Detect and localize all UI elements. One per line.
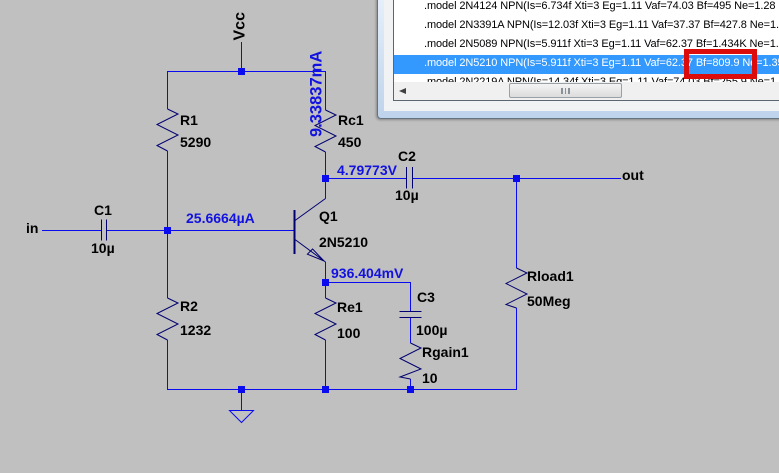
transistor Q1 (295, 199, 326, 263)
wire collector node to C2 (325, 178, 407, 180)
svg-text:Vcc: Vcc (232, 12, 249, 41)
capacitor C3 (400, 312, 422, 318)
label Rload1 (527, 269, 574, 283)
junction base node (164, 227, 171, 234)
value label 5290 (R1) (180, 135, 211, 149)
value label 450 (Rc1) (338, 135, 361, 149)
junction emitter node (322, 279, 329, 286)
svg-text:9.33837mA: 9.33837mA (308, 51, 326, 137)
label Rc1 (338, 113, 364, 127)
label R1 (180, 113, 198, 127)
wire bottom rail (167, 389, 517, 391)
wire ground stub (241, 392, 243, 411)
junction out node (513, 175, 520, 182)
wire Rc1 bottom lead to collector node (325, 152, 327, 179)
wire base node to Q1 base (167, 230, 294, 232)
wire Q1 emitter pin to node (325, 262, 327, 283)
resistor Rload1 (506, 268, 527, 308)
wire out node to out port (516, 178, 621, 180)
dialog window (model list) (377, 0, 779, 119)
annotation red rectangle highlight (684, 49, 757, 79)
label Re1 (337, 300, 363, 314)
label C1 (94, 203, 112, 217)
label Q1 (319, 209, 338, 223)
resistor R2 (157, 298, 178, 340)
wire Rc1 top lead from rail (325, 71, 327, 110)
junction Re1 bottom node (322, 386, 329, 393)
voltage label 4.79773V (337, 163, 397, 177)
wire C3 to Rgain1 (410, 317, 412, 343)
value label 100 (Re1) (337, 326, 360, 340)
junction Vcc node (238, 68, 245, 75)
label C2 (398, 149, 416, 163)
value label 50Meg (Rload1) (527, 294, 571, 308)
wire top rail (167, 71, 326, 73)
wire Q1 collector pin to node (325, 178, 327, 199)
voltage label 936.404mV (331, 266, 403, 280)
resistor R1 (157, 109, 178, 151)
wire left rail upper (R1 top lead) (167, 71, 169, 109)
value label 2N5210 (Q1) (319, 235, 368, 249)
net label out (622, 168, 644, 182)
wire R2 top lead (167, 230, 169, 298)
current label 25.6664uA (186, 211, 255, 225)
value label 10u (C2) (395, 188, 419, 202)
label R2 (180, 299, 198, 313)
wire Re1 bottom lead (325, 340, 327, 390)
ground symbol (230, 411, 254, 423)
junction ground node (238, 386, 245, 393)
junction collector node (322, 175, 329, 182)
resistor Rgain1 (400, 343, 421, 379)
wire Rload1 bottom lead (516, 308, 518, 390)
wire Vcc stub (241, 42, 243, 72)
wire Rgain1 bottom lead (410, 379, 412, 390)
value label 10 (Rgain1) (422, 371, 438, 385)
wire input segment (42, 230, 101, 232)
wire emitter node to Re1 (325, 282, 327, 298)
label C3 (417, 290, 435, 304)
value label 100u (C3) (416, 323, 447, 337)
resistor Rc1 (315, 110, 336, 152)
wire R1 bottom lead to base node (167, 151, 169, 231)
net label in (26, 221, 38, 235)
wire Rload1 top lead (516, 178, 518, 268)
label Rgain1 (422, 345, 469, 359)
wire C3 top lead (410, 282, 412, 311)
junction Rgain1 bottom node (407, 386, 414, 393)
wire R2 bottom lead (167, 340, 169, 390)
wire C1 to base node (107, 230, 168, 232)
wire C2 to out node (413, 178, 517, 180)
value label 1232 (R2) (180, 323, 211, 337)
wire emitter node to C3 branch (325, 282, 411, 284)
capacitor C2 (407, 167, 413, 189)
resistor Re1 (315, 298, 336, 340)
value label 10u (C1) (91, 241, 115, 255)
capacitor C1 (102, 220, 107, 241)
